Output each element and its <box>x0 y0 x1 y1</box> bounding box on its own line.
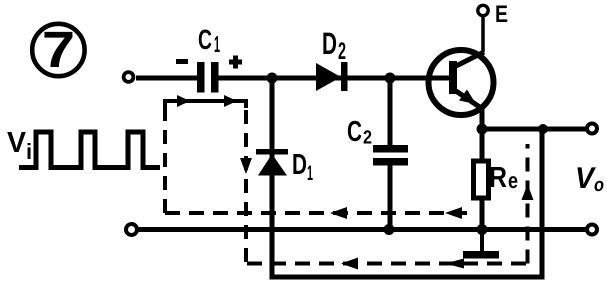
dashed loop1 right edge (D1 path) <box>244 101 248 262</box>
label D2 <box>322 26 346 65</box>
input terminal bottom <box>126 224 137 235</box>
dashed loop1 left edge <box>163 101 167 213</box>
label Vo <box>575 162 604 196</box>
polarity minus <box>176 59 188 64</box>
dashed arrow left on middle <box>445 207 462 219</box>
svg-text:1: 1 <box>214 31 220 57</box>
diode D1 <box>256 149 288 176</box>
svg-text:1: 1 <box>307 162 313 185</box>
dashed arrow right on top edge <box>224 95 237 107</box>
wire Re to bottom rail <box>480 198 485 229</box>
svg-text:R: R <box>489 162 507 194</box>
wire D1 branch vertical <box>270 78 275 277</box>
wire output rail top <box>482 127 586 132</box>
terminal E <box>478 5 488 15</box>
svg-text:C: C <box>198 24 212 55</box>
wire C1 to transistor <box>218 76 450 81</box>
wire frame riser and bottom <box>270 129 543 277</box>
svg-text:2: 2 <box>338 38 346 65</box>
node junction D2/C2 <box>385 73 396 84</box>
wire emitter to Re <box>480 108 485 162</box>
node C2/bottom rail <box>384 224 395 235</box>
svg-text:e: e <box>508 168 518 193</box>
diode D2 <box>316 62 348 91</box>
transistor Q1 <box>429 50 494 115</box>
node emitter/output rail <box>477 124 488 135</box>
resistor Re <box>474 161 489 198</box>
label C1 <box>198 24 220 57</box>
svg-text:i: i <box>26 139 32 164</box>
input terminal top <box>124 72 134 82</box>
wire C2 branch vertical upper <box>388 78 393 146</box>
svg-text:E: E <box>495 1 508 28</box>
capacitor C1 <box>197 62 219 93</box>
dashed middle horizontal <box>165 211 467 215</box>
svg-text:7: 7 <box>42 21 75 78</box>
ground <box>463 231 499 259</box>
bottom rail <box>137 227 586 232</box>
svg-text:D: D <box>292 149 307 181</box>
dashed bottom horizontal <box>247 262 528 266</box>
label Re <box>489 162 518 194</box>
output terminal top <box>587 124 597 134</box>
svg-text:V: V <box>7 127 27 159</box>
Vi square wave <box>19 132 160 168</box>
svg-text:o: o <box>594 175 604 196</box>
label C2 <box>347 116 372 149</box>
polarity plus <box>229 56 242 69</box>
svg-text:C: C <box>347 116 362 148</box>
svg-text:D: D <box>322 26 337 61</box>
output terminal bottom <box>587 225 597 235</box>
dashed arrow up on Re path <box>522 184 534 200</box>
node output/frame riser <box>538 124 548 134</box>
wire input to C1 <box>136 76 197 81</box>
capacitor C2 <box>373 145 408 166</box>
dashed arrow right on top edge <box>177 95 190 107</box>
dashed right vertical (Re path) <box>526 144 530 264</box>
node Re/bottom rail <box>477 224 488 235</box>
node junction C1/D1 <box>267 73 278 84</box>
wire C2 branch vertical lower <box>388 165 393 229</box>
dashed arrow left on bottom <box>445 259 464 269</box>
label D1 <box>292 149 313 185</box>
dashed loop1 top edge <box>165 101 246 108</box>
figure number badge 7 <box>32 21 84 78</box>
dashed arrow left on bottom <box>341 258 358 270</box>
dashed arrow left on middle <box>330 207 347 219</box>
dashed arrow down on D1 path <box>240 158 252 174</box>
svg-text:2: 2 <box>363 128 372 149</box>
wire E to transistor <box>481 16 485 52</box>
Vi label <box>7 127 32 164</box>
